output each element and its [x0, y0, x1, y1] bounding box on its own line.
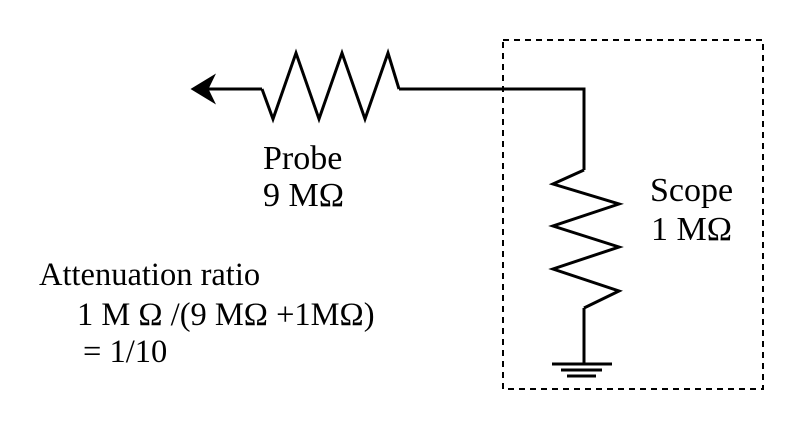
svg-text:Attenuation ratio: Attenuation ratio — [39, 257, 260, 293]
resistor: Scope 1 MΩ (vertical zigzag) — [553, 170, 619, 308]
ground — [552, 364, 612, 376]
svg-text:Probe: Probe — [263, 140, 342, 177]
probe input arrow — [191, 74, 263, 105]
svg-text:Scope: Scope — [650, 172, 733, 209]
svg-text:= 1/10: = 1/10 — [83, 334, 167, 370]
scope enclosure (dashed box) — [503, 40, 763, 389]
resistor: Probe 9 MΩ (horizontal zigzag) — [262, 53, 399, 119]
wire: probe resistor to scope input — [399, 89, 584, 170]
svg-text:1 MΩ: 1 MΩ — [651, 211, 732, 248]
svg-text:1 M Ω /(9 MΩ +1MΩ): 1 M Ω /(9 MΩ +1MΩ) — [77, 297, 375, 333]
svg-text:9 MΩ: 9 MΩ — [263, 177, 344, 214]
wire: scope resistor to ground — [583, 308, 586, 364]
